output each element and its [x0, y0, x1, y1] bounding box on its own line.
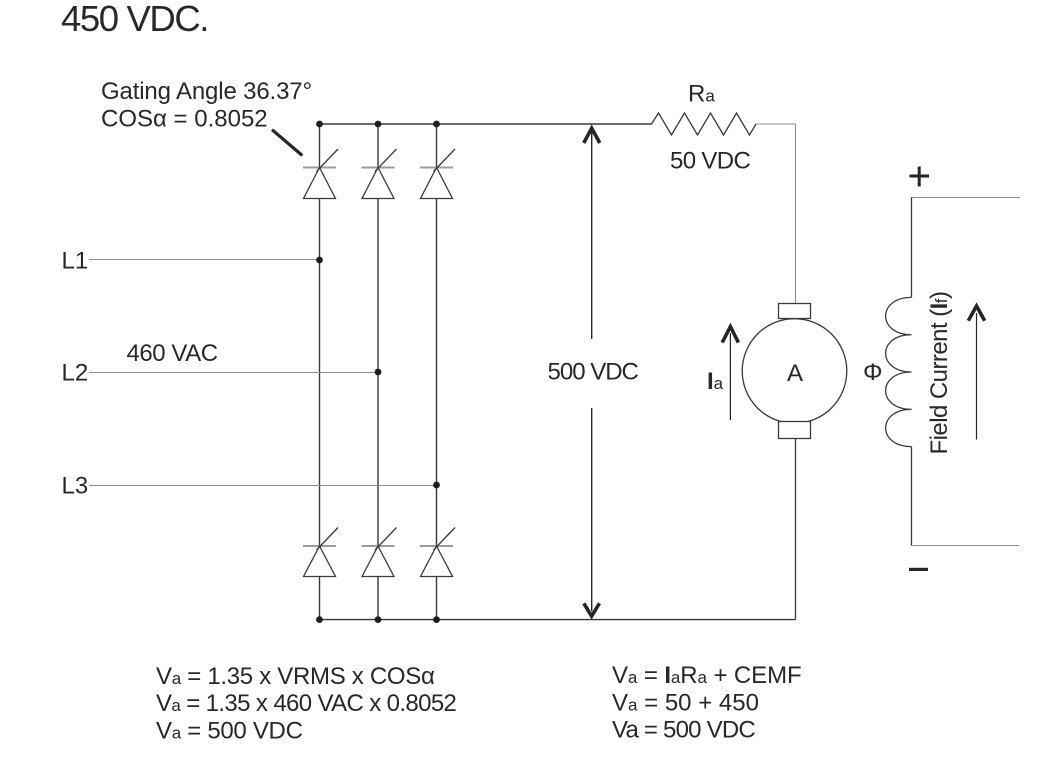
svg-text:Φ: Φ — [863, 359, 883, 386]
wire top DC bus — [320, 123, 652, 125]
wire field left upper — [911, 198, 913, 298]
svg-text:L3: L3 — [62, 473, 89, 500]
thyristor SCR3 — [420, 149, 455, 199]
wire L1 — [89, 259, 320, 261]
svg-text:Field Current (If): Field Current (If) — [926, 292, 953, 455]
arrow Ia — [722, 327, 738, 420]
junction dot L1 — [316, 257, 323, 264]
svg-text:Va = 1.35 x 460 VAC x 0.8052: Va = 1.35 x 460 VAC x 0.8052 — [156, 690, 457, 717]
svg-text:50 VDC: 50 VDC — [670, 148, 750, 175]
svg-text:450 VDC.: 450 VDC. — [61, 0, 208, 39]
wire resistor to armature top — [756, 124, 796, 304]
thyristor SCR2 — [362, 149, 397, 199]
armature wire bottom — [795, 439, 797, 620]
wire L3 — [89, 485, 437, 487]
svg-text:Va = 500 VDC: Va = 500 VDC — [612, 717, 755, 744]
svg-text:COSα = 0.8052: COSα = 0.8052 — [101, 106, 268, 133]
terminal plus — [910, 167, 930, 187]
wire phase column 3 — [436, 124, 438, 620]
svg-text:500 VDC: 500 VDC — [548, 359, 639, 386]
wire phase column 2 — [377, 124, 379, 620]
junction dots bottom bus — [316, 616, 440, 623]
wire bottom DC bus — [320, 619, 796, 621]
svg-text:Va = IaRa + CEMF: Va = IaRa + CEMF — [612, 662, 802, 689]
terminal minus — [909, 568, 928, 571]
svg-text:L1: L1 — [62, 248, 89, 275]
wire field top — [911, 197, 1020, 199]
junction dots top bus — [316, 121, 440, 128]
thyristor SCR6 — [420, 528, 455, 577]
wire phase column 1 — [319, 124, 321, 620]
leader line from gating label to SCR1 — [272, 130, 302, 156]
wire field left lower — [911, 447, 913, 546]
svg-text:Gating Angle 36.37°: Gating Angle 36.37° — [101, 78, 312, 105]
wire field bottom — [911, 545, 1019, 547]
thyristor SCR5 — [362, 528, 397, 577]
svg-text:A: A — [787, 360, 803, 387]
arrow field current — [968, 306, 984, 440]
thyristor SCR1 — [303, 149, 338, 199]
thyristor SCR4 — [303, 528, 338, 577]
inductor field winding — [886, 297, 912, 446]
resistor Ra — [652, 113, 757, 135]
wire L2 — [89, 372, 378, 374]
junction dot L3 — [433, 482, 440, 489]
measurement arrow 500 VDC — [584, 128, 600, 616]
svg-text:L2: L2 — [62, 360, 89, 387]
svg-text:460 VAC: 460 VAC — [127, 340, 218, 367]
motor armature A — [742, 304, 847, 439]
junction dot L2 — [375, 369, 382, 376]
svg-text:Va = 1.35 x VRMS x COSα: Va = 1.35 x VRMS x COSα — [156, 663, 435, 690]
